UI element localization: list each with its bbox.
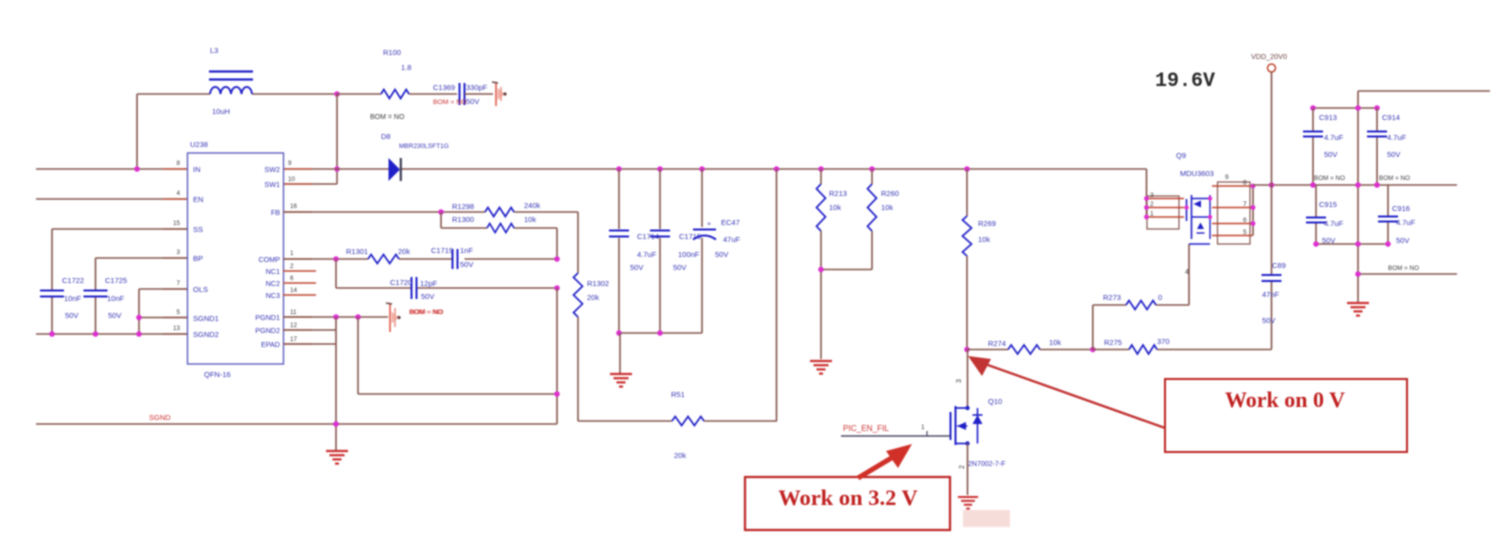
svg-text:3: 3 xyxy=(956,379,963,383)
node C1720 right xyxy=(554,285,560,291)
node bus OLS xyxy=(136,331,142,337)
svg-text:C913: C913 xyxy=(1319,113,1337,122)
resistor R213 xyxy=(817,169,847,359)
wire IN net left xyxy=(36,168,187,170)
node bus C1722 xyxy=(49,331,55,337)
svg-text:BOM = NO: BOM = NO xyxy=(433,99,466,106)
wire PGND drop xyxy=(358,317,557,394)
pink highlight smudge xyxy=(963,510,1010,527)
wire SS branch xyxy=(52,229,187,334)
resistor R1302 xyxy=(574,212,610,421)
pin 15 SS xyxy=(173,220,181,227)
svg-text:50V: 50V xyxy=(65,311,78,320)
svg-text:R269: R269 xyxy=(978,219,996,228)
resistor R1298 xyxy=(452,201,541,217)
capacitor C916 xyxy=(1378,185,1416,245)
wire EC47 column xyxy=(701,169,703,333)
wire R1300 row xyxy=(441,212,557,258)
wire cap1 column xyxy=(618,169,620,333)
ground below R213 xyxy=(810,361,832,374)
svg-text:FB: FB xyxy=(271,208,280,217)
svg-text:C915: C915 xyxy=(1319,200,1337,209)
svg-text:3: 3 xyxy=(176,249,180,256)
node R274-R275 xyxy=(1090,347,1096,353)
svg-text:2: 2 xyxy=(290,263,294,270)
wire main bus xyxy=(283,169,1147,217)
svg-text:10k: 10k xyxy=(829,203,841,212)
node SW junction xyxy=(334,166,340,172)
svg-text:MBR230LSFT1G: MBR230LSFT1G xyxy=(399,143,449,150)
svg-text:EPAD: EPAD xyxy=(261,340,280,349)
ground below cap block xyxy=(1347,303,1369,316)
label BOM C913 xyxy=(1314,175,1345,182)
svg-text:NC1: NC1 xyxy=(266,267,280,276)
svg-text:R1298: R1298 xyxy=(452,202,474,211)
svg-text:NC3: NC3 xyxy=(266,291,280,300)
wire pin stub overlays xyxy=(163,169,312,344)
svg-text:19.6V: 19.6V xyxy=(1155,70,1215,93)
svg-text:1: 1 xyxy=(921,424,925,431)
svg-text:SS: SS xyxy=(193,225,203,234)
svg-text:50V: 50V xyxy=(1324,150,1337,159)
svg-text:20k: 20k xyxy=(398,247,410,256)
svg-text:9: 9 xyxy=(288,160,292,167)
node R100 junction xyxy=(334,91,340,97)
wire PGND2 row xyxy=(283,329,336,331)
pin 11 PGND1 xyxy=(290,309,297,316)
svg-text:6: 6 xyxy=(290,275,294,282)
svg-text:16: 16 xyxy=(290,203,298,210)
svg-text:R275: R275 xyxy=(1104,338,1122,347)
svg-text:1.8: 1.8 xyxy=(401,63,411,72)
svg-text:12: 12 xyxy=(290,322,298,329)
node bus R269 xyxy=(964,166,970,172)
svg-text:4.7uF: 4.7uF xyxy=(1387,133,1407,142)
wire EN net left xyxy=(36,198,187,200)
wire Q9 output row xyxy=(1253,184,1457,186)
transistor Q9 left pin box xyxy=(1144,192,1184,229)
svg-text:50V: 50V xyxy=(460,260,473,269)
callout box Work on 0 V xyxy=(1165,379,1407,452)
capacitor C1722 xyxy=(40,276,84,320)
wire R51 riser xyxy=(776,169,778,421)
svg-text:R274: R274 xyxy=(988,339,1006,348)
node bottom rail c xyxy=(1385,241,1391,247)
svg-text:NC2: NC2 xyxy=(266,279,280,288)
svg-text:50V: 50V xyxy=(466,97,479,106)
node bus EC47 xyxy=(699,166,705,172)
node SGND junction xyxy=(333,421,339,427)
svg-text:47uF: 47uF xyxy=(723,235,741,244)
resistor R1301 xyxy=(346,247,410,264)
svg-text:20k: 20k xyxy=(674,451,686,460)
svg-text:R1300: R1300 xyxy=(452,215,474,224)
svg-text:8: 8 xyxy=(176,160,180,167)
pin 2 NC1 xyxy=(290,263,294,270)
capacitor C913 xyxy=(1303,108,1344,185)
svg-text:10k: 10k xyxy=(1049,338,1061,347)
node mid rail c xyxy=(1374,182,1380,188)
svg-text:Q10: Q10 xyxy=(988,397,1002,406)
svg-text:7: 7 xyxy=(176,280,180,287)
svg-text:10uH: 10uH xyxy=(212,107,230,116)
pin 7 OLS xyxy=(176,280,180,287)
wire FB net xyxy=(283,211,578,213)
wire cap top rail xyxy=(1313,107,1377,109)
node bottom rail b xyxy=(1355,241,1361,247)
node bus C1725 xyxy=(93,331,99,337)
node bottom rail a xyxy=(1313,241,1319,247)
capacitor C89 xyxy=(1262,185,1286,350)
pin 8 IN xyxy=(176,160,180,167)
node bus R213 xyxy=(818,166,824,172)
svg-text:SGND2: SGND2 xyxy=(193,330,219,339)
voltage label 19.6V xyxy=(1155,70,1215,93)
pin 9 SW2 xyxy=(288,160,292,167)
power VDD_20V0 xyxy=(1251,52,1287,185)
svg-text:10: 10 xyxy=(288,176,296,183)
svg-text:2: 2 xyxy=(1150,201,1154,208)
pin 17 EPAD xyxy=(290,336,298,343)
wire BOM row xyxy=(1358,265,1457,274)
svg-text:9: 9 xyxy=(1225,174,1229,181)
svg-text:50V: 50V xyxy=(421,292,434,301)
svg-text:10k: 10k xyxy=(881,203,893,212)
wire BP branch xyxy=(96,258,188,334)
ground below Q10 xyxy=(958,497,978,509)
op-amp U238 (switcher IC) xyxy=(188,140,284,379)
svg-text:15: 15 xyxy=(173,220,181,227)
svg-text:BOM = NO: BOM = NO xyxy=(1379,175,1410,182)
node FB branch xyxy=(438,209,444,215)
transistor Q10 2N7002 xyxy=(951,397,1006,469)
node SGND cross xyxy=(554,391,560,397)
capacitor C1715 xyxy=(650,231,701,273)
callout box Work on 3.2 V xyxy=(745,477,950,530)
svg-text:2N7002-7-F: 2N7002-7-F xyxy=(968,461,1005,468)
wire SGND1 stub xyxy=(139,317,187,319)
svg-text:C89: C89 xyxy=(1272,261,1286,270)
wire Q9 pin4 xyxy=(1185,244,1189,305)
svg-text:10nF: 10nF xyxy=(64,294,82,303)
capacitor EC47 xyxy=(693,218,741,259)
svg-text:4.7uF: 4.7uF xyxy=(1324,133,1344,142)
svg-text:1: 1 xyxy=(290,250,294,257)
node COMP branch xyxy=(333,256,339,262)
svg-text:COMP: COMP xyxy=(258,255,280,264)
pin 10 SW1 xyxy=(288,176,296,183)
power symbol P1369 xyxy=(492,82,507,106)
svg-text:10k: 10k xyxy=(978,235,990,244)
wire cap bottom rail right xyxy=(1316,243,1388,245)
svg-text:C1369: C1369 xyxy=(433,83,455,92)
ground below EPAD xyxy=(326,451,348,464)
svg-text:5: 5 xyxy=(176,309,180,316)
node top rail c xyxy=(1374,105,1380,111)
svg-text:3: 3 xyxy=(1150,192,1154,199)
svg-text:10nF: 10nF xyxy=(107,294,125,303)
capacitor C914 xyxy=(1367,108,1407,185)
svg-text:C1725: C1725 xyxy=(105,276,127,285)
svg-text:1: 1 xyxy=(1150,211,1154,218)
capacitor C1719 xyxy=(431,246,473,269)
svg-text:L3: L3 xyxy=(210,46,218,55)
svg-text:R273: R273 xyxy=(1103,293,1121,302)
node bus R260 xyxy=(869,166,875,172)
svg-text:370: 370 xyxy=(1157,337,1170,346)
diode D8 xyxy=(381,132,449,181)
pin 1 COMP xyxy=(290,250,294,257)
svg-text:Work on 0 V: Work on 0 V xyxy=(1225,387,1345,412)
svg-text:5: 5 xyxy=(1243,229,1247,236)
wire NC stubs xyxy=(283,271,316,295)
wire rail drop xyxy=(619,333,621,373)
svg-text:7: 7 xyxy=(1243,201,1247,208)
svg-text:2: 2 xyxy=(959,465,966,469)
svg-text:SGND1: SGND1 xyxy=(193,314,219,323)
pin 16 FB xyxy=(290,203,298,210)
svg-text:1nF: 1nF xyxy=(460,246,473,255)
wire PGND1 row xyxy=(283,316,388,318)
svg-text:C1722: C1722 xyxy=(62,276,84,285)
resistor R260 xyxy=(821,169,899,270)
node PGND1 a xyxy=(333,314,339,320)
power symbol PGND xyxy=(386,303,442,332)
node R213-R260 xyxy=(818,267,824,273)
node IN junction xyxy=(134,166,140,172)
svg-text:50V: 50V xyxy=(1262,316,1275,325)
node top rail a xyxy=(1310,105,1316,111)
svg-text:12pF: 12pF xyxy=(420,279,438,288)
svg-text:VDD_20V0: VDD_20V0 xyxy=(1251,52,1287,61)
capacitor C1369 xyxy=(433,83,493,106)
svg-text:Work on 3.2 V: Work on 3.2 V xyxy=(778,485,918,510)
svg-text:SGND: SGND xyxy=(149,413,171,422)
svg-text:50V: 50V xyxy=(1396,236,1409,245)
svg-text:C1720: C1720 xyxy=(390,278,412,287)
wire C1720 row xyxy=(336,259,557,288)
svg-text:50V: 50V xyxy=(108,311,121,320)
svg-text:100nF: 100nF xyxy=(678,250,700,259)
wire Q10 source xyxy=(967,444,969,496)
node BOM row xyxy=(1355,271,1361,277)
node C1719 right xyxy=(554,256,560,262)
wire SW riser xyxy=(336,94,338,184)
svg-text:240k: 240k xyxy=(524,201,541,210)
node mid rail a xyxy=(1310,182,1316,188)
svg-text:BOM = NO: BOM = NO xyxy=(409,309,442,316)
svg-text:PGND1: PGND1 xyxy=(255,313,280,322)
arrow to Q10 junction xyxy=(968,356,1165,428)
svg-text:BOM = NO: BOM = NO xyxy=(1388,265,1419,272)
svg-text:R260: R260 xyxy=(881,189,899,198)
svg-text:4.7uF: 4.7uF xyxy=(1396,218,1416,227)
resistor R274 xyxy=(967,338,1093,354)
svg-text:SW1: SW1 xyxy=(264,180,280,189)
inductor L3 xyxy=(137,46,337,116)
svg-text:SW2: SW2 xyxy=(264,165,280,174)
pin 3 BP xyxy=(176,249,180,256)
svg-text:C916: C916 xyxy=(1392,204,1410,213)
pin 12 PGND2 xyxy=(290,322,298,329)
resistor R273 xyxy=(1093,293,1189,350)
svg-text:10k: 10k xyxy=(524,215,536,224)
resistor R100 xyxy=(337,48,457,121)
svg-text:20k: 20k xyxy=(587,293,599,302)
label BOM C914 xyxy=(1379,175,1410,182)
svg-text:EC47: EC47 xyxy=(721,218,740,227)
svg-text:11: 11 xyxy=(290,309,297,316)
wire Q10 drain xyxy=(956,350,968,409)
wire EPAD row xyxy=(283,343,336,345)
svg-text:47nF: 47nF xyxy=(1262,290,1280,299)
wire top right feed xyxy=(1358,91,1490,302)
wire SW1 stub xyxy=(283,183,337,185)
svg-text:6: 6 xyxy=(1243,217,1247,224)
capacitor C1714 xyxy=(609,231,659,273)
wire FB-comp riser xyxy=(556,288,558,424)
svg-text:4: 4 xyxy=(176,190,180,197)
svg-text:50V: 50V xyxy=(715,250,728,259)
svg-text:R51: R51 xyxy=(671,390,685,399)
node PGND1 b xyxy=(355,314,361,320)
svg-text:13: 13 xyxy=(173,325,181,332)
svg-text:R100: R100 xyxy=(383,48,401,57)
pin 14 NC3 xyxy=(290,287,298,294)
wire inductor riser xyxy=(136,94,138,169)
node bus cap2 xyxy=(657,166,663,172)
svg-text:R213: R213 xyxy=(829,189,847,198)
wire SGND bus upper xyxy=(36,333,187,335)
resistor R269 xyxy=(963,169,996,350)
node bus cap1 xyxy=(616,166,622,172)
svg-text:MDU3603: MDU3603 xyxy=(1180,169,1214,178)
svg-text:14: 14 xyxy=(290,287,298,294)
resistor R275 xyxy=(1093,337,1272,354)
svg-text:330pF: 330pF xyxy=(466,83,488,92)
svg-text:EN: EN xyxy=(193,195,203,204)
svg-text:BOM = NO: BOM = NO xyxy=(1314,175,1345,182)
svg-text:PIC_EN_FIL: PIC_EN_FIL xyxy=(843,424,889,433)
svg-text:OLS: OLS xyxy=(193,285,208,294)
capacitor C1725 xyxy=(84,276,128,320)
pin 6 NC2 xyxy=(290,275,294,282)
node OLS-SGND1 xyxy=(136,315,142,321)
transistor Q9 right pin box xyxy=(1212,174,1255,244)
svg-text:BOM = NO: BOM = NO xyxy=(370,114,405,121)
svg-text:50V: 50V xyxy=(673,263,686,272)
svg-text:C914: C914 xyxy=(1382,113,1400,122)
svg-text:R1302: R1302 xyxy=(587,279,609,288)
node top rail b xyxy=(1355,105,1361,111)
wire Q10 gate PIC_EN_FIL xyxy=(841,424,951,436)
svg-text:17: 17 xyxy=(290,336,298,343)
wire PGND riser xyxy=(335,317,337,450)
node bus R51 xyxy=(774,166,780,172)
wire cap bottom rail xyxy=(619,332,702,334)
svg-text:0: 0 xyxy=(1158,293,1162,302)
capacitor C1720 xyxy=(390,277,443,316)
svg-text:U238: U238 xyxy=(190,140,208,149)
svg-text:QFN-16: QFN-16 xyxy=(204,370,231,379)
svg-text:IN: IN xyxy=(193,165,201,174)
svg-text:C1719: C1719 xyxy=(431,246,453,255)
node rail cap2 xyxy=(657,330,663,336)
svg-text:4.7uF: 4.7uF xyxy=(1324,219,1344,228)
resistor R51 xyxy=(578,390,777,460)
svg-text:8: 8 xyxy=(1243,180,1247,187)
node mid rail b xyxy=(1355,182,1361,188)
pin 4 EN xyxy=(176,190,180,197)
net label SGND xyxy=(149,413,171,422)
node Q10 drain junction xyxy=(964,347,970,353)
wire SGND bus xyxy=(36,423,557,425)
node rail cap1 xyxy=(616,330,622,336)
svg-text:BP: BP xyxy=(193,254,203,263)
svg-text:+: + xyxy=(707,221,711,228)
wire cap2 column xyxy=(659,169,661,333)
pin 13 SGND2 xyxy=(173,325,181,332)
transistor Q9 MDU3603 xyxy=(1176,151,1214,244)
resistor R1300 xyxy=(452,215,536,233)
svg-text:4.7uF: 4.7uF xyxy=(637,250,657,259)
svg-text:Q9: Q9 xyxy=(1176,151,1186,160)
svg-text:R1301: R1301 xyxy=(346,247,368,256)
wire COMP row xyxy=(283,258,557,260)
svg-text:PGND2: PGND2 xyxy=(255,326,280,335)
svg-text:D8: D8 xyxy=(381,132,391,141)
arrow to PIC_EN_FIL xyxy=(858,444,912,478)
wire OLS branch xyxy=(139,289,187,334)
ground below cap bank xyxy=(610,374,632,387)
capacitor C915 xyxy=(1306,185,1344,245)
pin 5 SGND1 xyxy=(176,309,180,316)
svg-text:50V: 50V xyxy=(1387,150,1400,159)
svg-text:4: 4 xyxy=(1185,269,1189,276)
svg-text:50V: 50V xyxy=(630,263,643,272)
node VDD join xyxy=(1269,182,1275,188)
